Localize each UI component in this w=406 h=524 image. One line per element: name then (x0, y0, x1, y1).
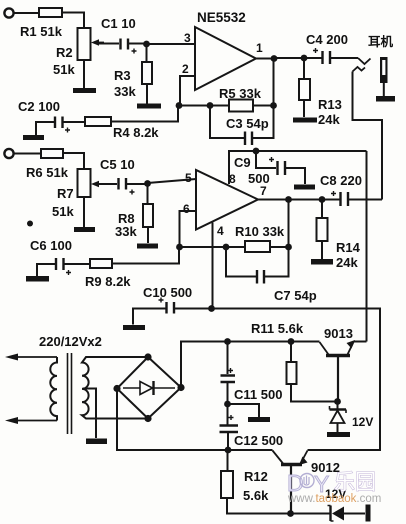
capacitor C10 (167, 302, 175, 314)
ground jack (376, 96, 395, 102)
wire Q1 emitter to +V rail (354, 341, 367, 343)
svg-text:C3 54p: C3 54p (226, 116, 269, 131)
svg-text:C12 500: C12 500 (234, 433, 283, 448)
AC input arrow bottom (16, 420, 57, 422)
svg-text:R6 51k: R6 51k (26, 165, 69, 180)
svg-text:500: 500 (248, 171, 270, 186)
ground R7 (74, 227, 95, 232)
node rail2 right (285, 244, 292, 251)
resistor R8 (143, 204, 153, 227)
svg-text:6: 6 (183, 202, 190, 216)
svg-text:C4 200: C4 200 (306, 32, 348, 47)
plus C10 (159, 298, 164, 303)
wire R2 bottom (83, 60, 85, 88)
wire C5 to node (127, 183, 148, 185)
plus C11 (228, 368, 233, 373)
svg-text:C10 500: C10 500 (143, 285, 192, 300)
transistor Q2 collector (273, 451, 284, 464)
node out2 (285, 196, 292, 203)
svg-text:5: 5 (185, 171, 192, 185)
wire C11 bottom to midpoint (227, 383, 229, 404)
wire midpoint to C12 (227, 404, 229, 426)
resistor R1 (39, 8, 62, 17)
wire R10 right (270, 246, 289, 248)
wire C6 to R9 (65, 263, 91, 265)
svg-text:R7: R7 (57, 186, 74, 201)
feedback rail ch2 (179, 246, 245, 248)
wire out1 down to rail (273, 59, 275, 106)
node zener D2 (287, 510, 294, 517)
wire Q2 base down (290, 466, 292, 514)
wire bridge- drop to -rail (117, 389, 273, 451)
svg-text:R4 8.2k: R4 8.2k (113, 125, 159, 140)
wire C9 (256, 151, 276, 168)
svg-text:C8 220: C8 220 (320, 173, 362, 188)
+V line to rail (228, 150, 367, 152)
node pin6/rail (176, 244, 183, 251)
wire C12 node to R12 (227, 450, 229, 471)
wire C9 to ground (286, 168, 305, 184)
svg-text:1: 1 (256, 41, 263, 55)
transistor Q1 emitter with arrow (348, 342, 354, 355)
capacitor C11 (221, 376, 236, 383)
node C10 (208, 305, 215, 312)
resistor R5 (229, 100, 253, 112)
transistor Q2 emitter with arrow (301, 451, 308, 464)
wire R11 bottom to zener node (291, 384, 338, 402)
wire C2 to R4 (64, 121, 86, 123)
svg-text:33k: 33k (115, 224, 137, 239)
headphone plug tip hook (358, 58, 371, 64)
bridge node left (113, 385, 120, 392)
input terminal R (4, 149, 13, 158)
+V rail vertical (366, 151, 368, 342)
capacitor C4 (323, 51, 331, 64)
svg-text:www.taobaok.com: www.taobaok.com (287, 493, 381, 505)
plus C8 (331, 191, 336, 196)
svg-text:4: 4 (217, 224, 224, 238)
node R13 top (301, 55, 308, 62)
capacitor C5 (119, 178, 127, 190)
capacitor C3 (245, 132, 252, 146)
plus C4 (313, 48, 318, 53)
capacitor C6 (56, 258, 64, 270)
wire C1 to node (129, 43, 147, 45)
wire node to zener D2 (291, 513, 331, 515)
svg-text:R12: R12 (244, 469, 268, 484)
resistor R13 (299, 79, 310, 100)
wire R13 bottom (303, 100, 305, 117)
ground C9 (294, 185, 315, 190)
wire zener D1 top (337, 402, 339, 410)
svg-text:C9: C9 (234, 155, 251, 170)
resistor R6 (41, 149, 63, 158)
ground R13 (293, 118, 317, 123)
wire R11 top (290, 342, 292, 363)
wire midpoint to ground (228, 404, 260, 417)
wire R4 to feedback rail (111, 106, 178, 122)
ground C6 (26, 276, 49, 282)
wire output 7 (258, 199, 340, 201)
transistor Q1 9013 base bar (326, 354, 350, 357)
zener diode D1 12V cathode (330, 408, 347, 410)
ground center tap (86, 439, 107, 445)
potentiometer R2 (78, 28, 91, 60)
wire ring hook down and to C8 (353, 72, 383, 200)
wire input L to R1 (14, 12, 39, 14)
wire R14 (321, 200, 323, 219)
wire wiper to C1 (99, 43, 119, 45)
svg-text:C5 10: C5 10 (100, 157, 135, 172)
node out1 (271, 55, 278, 62)
svg-text:24k: 24k (336, 255, 358, 270)
svg-text:C7 54p: C7 54p (274, 288, 317, 303)
wire node to pin5 (148, 179, 197, 183)
wire R6 to pot R7 (63, 153, 84, 169)
node R14 top (319, 196, 326, 203)
capacitor C12 (220, 426, 239, 433)
feedback rail ch1 (178, 105, 229, 107)
plus C1 (132, 49, 137, 54)
ground C2 (23, 135, 44, 140)
ground zener D2 (366, 505, 371, 522)
resistor R14 (317, 218, 328, 241)
svg-text:9013: 9013 (324, 326, 353, 341)
capacitor C7 (257, 270, 264, 284)
plus C9 (269, 157, 274, 162)
transistor Q2 9012 base bar (281, 463, 302, 466)
bridge node bottom (144, 415, 151, 422)
svg-text:51k: 51k (52, 204, 74, 219)
svg-text:5.6k: 5.6k (243, 488, 269, 503)
C3 loop wires (210, 106, 274, 139)
bridge rectifier diamond (117, 357, 181, 419)
wire out2 down to rail2 (288, 200, 290, 248)
wire C4 to jack (331, 57, 358, 59)
ground R14 (311, 259, 333, 265)
wiper arrow R2 (94, 42, 104, 44)
wire ground to C2 (36, 122, 54, 135)
wire R8 bottom (147, 227, 149, 243)
svg-text:NE5532: NE5532 (197, 10, 246, 25)
ground midpoint (248, 417, 270, 422)
svg-text:33k: 33k (114, 84, 136, 99)
ground R2 (73, 88, 96, 93)
capacitor C8 (341, 192, 349, 206)
wire node to R3 (146, 44, 148, 62)
svg-text:C2 100: C2 100 (18, 99, 60, 114)
svg-text:3: 3 (184, 31, 191, 45)
wire zener D1 to ground (337, 423, 339, 432)
op-amp U1A NE5532 triangle (195, 27, 256, 90)
wire R13 (303, 58, 305, 79)
op-amp U1B triangle (196, 170, 258, 230)
input terminal L (4, 8, 13, 17)
wire C12 to bottom rail (227, 433, 229, 450)
wire R5 right (253, 105, 274, 107)
wire R3 bottom (146, 84, 148, 104)
capacitor C9 (278, 161, 286, 175)
svg-text:R3: R3 (114, 68, 131, 83)
wire C10 right / -V line (175, 309, 380, 451)
svg-text:R2: R2 (56, 45, 73, 60)
svg-text:51k: 51k (53, 62, 75, 77)
bridge node top (144, 353, 151, 360)
svg-text:12V: 12V (352, 415, 373, 429)
resistor R11 (287, 362, 297, 384)
wire jack to ground (383, 83, 385, 96)
wire R1 to pot R2 top (62, 13, 84, 29)
node C7 left (223, 244, 230, 251)
node midpoint C11 C12 (224, 401, 231, 408)
wire C11 top (227, 342, 229, 375)
node C11 top (224, 338, 231, 345)
node zener D1 (334, 398, 341, 405)
plus C2 (65, 128, 70, 133)
svg-text:2: 2 (182, 62, 189, 76)
wire node to pin3 (147, 43, 196, 45)
svg-text:R1 51k: R1 51k (20, 24, 63, 39)
transformer center tap (83, 389, 96, 439)
transformer T primary winding (50, 357, 57, 421)
wire C8 to jack riser (349, 199, 382, 201)
svg-text:8: 8 (229, 172, 236, 186)
ground C10 (123, 325, 145, 330)
AC input arrow top (16, 356, 57, 358)
transistor Q1 collector (320, 342, 329, 355)
headphone plug ring hook (353, 67, 366, 72)
resistor R3 (142, 62, 152, 84)
svg-text:乐园: 乐园 (334, 471, 376, 494)
node pin2/rail (176, 102, 183, 109)
wire pin4 down (212, 223, 214, 309)
transformer secondary winding (82, 357, 148, 419)
wire pin6 (180, 211, 197, 247)
wire R14 bottom (321, 241, 323, 259)
wire R9 to rail ch2 (112, 247, 179, 264)
resistor R10 (245, 241, 270, 252)
resistor R9 (90, 259, 112, 268)
zener D1 triangle (331, 411, 345, 424)
potentiometer R7 (78, 169, 91, 197)
plus C12 (229, 415, 234, 420)
node C9 (253, 148, 260, 155)
stray mark (27, 221, 33, 227)
transformer core (68, 353, 72, 434)
node C5/R8/pin5 (144, 180, 151, 187)
bridge node right (177, 384, 184, 391)
wire output 1 (256, 57, 322, 60)
zener D2 triangle (332, 507, 344, 521)
wire wiper to C5 (99, 183, 117, 185)
wire R12 bottom rail (227, 498, 291, 514)
wire R7 bottom (83, 197, 85, 227)
node C3 left (207, 102, 214, 109)
wire Q1 base down (337, 357, 339, 402)
node C1/R3/pin3 (143, 41, 150, 48)
ground R3 (137, 104, 161, 109)
wire ground to C6 (37, 264, 55, 276)
svg-text:R11 5.6k: R11 5.6k (251, 321, 304, 336)
wire node to R8 (147, 184, 149, 204)
wire pin2 (180, 76, 195, 106)
bridge diode symbol (123, 387, 175, 389)
resistor R4 (85, 117, 111, 126)
svg-text:C1 10: C1 10 (101, 16, 136, 31)
svg-text:C11 500: C11 500 (234, 387, 282, 402)
svg-text:7: 7 (260, 184, 267, 198)
svg-text:24k: 24k (318, 112, 340, 127)
capacitor C2 (55, 117, 63, 129)
svg-text:R5 33k: R5 33k (219, 86, 262, 101)
node R11 top (288, 338, 295, 345)
wiper arrow R7 (94, 183, 104, 185)
svg-text:R14: R14 (336, 240, 361, 255)
svg-text:R10 33k: R10 33k (235, 224, 285, 239)
svg-text:R9 8.2k: R9 8.2k (85, 274, 131, 289)
plus C5 (130, 190, 135, 195)
wire zener D2 to ground (344, 513, 365, 515)
plus C6 (66, 270, 71, 275)
wire input R to R6 (14, 153, 41, 155)
svg-text:R13: R13 (318, 97, 342, 112)
wire pin8 up (228, 151, 230, 184)
node rail right (270, 102, 277, 109)
C7 loop wires (226, 247, 289, 277)
wire C10 left to ground (133, 309, 166, 325)
resistor R12 (221, 471, 233, 498)
svg-text:C6 100: C6 100 (30, 238, 72, 253)
wire bridge+ riser to +rail (181, 342, 320, 388)
ground zener D1 (327, 432, 350, 437)
node C12 bottom (225, 447, 232, 454)
ground R8 (137, 244, 158, 249)
svg-text:耳机: 耳机 (368, 34, 394, 49)
headphone jack sleeve (380, 57, 388, 83)
zener diode D2 12V cathode (329, 506, 331, 522)
capacitor C1 (121, 39, 129, 50)
svg-text:220/12Vx2: 220/12Vx2 (39, 334, 102, 349)
